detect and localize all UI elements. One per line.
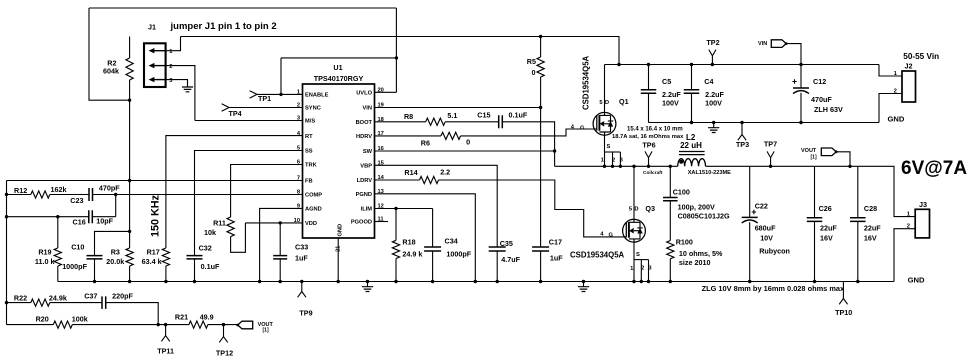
wire: Q3 source pin bar [634,259,649,261]
wire: Q1 source pin bar [605,151,621,153]
junction: R19 tap on C16 branch [56,215,59,218]
resistor R2 [126,58,133,80]
wire: ENABLE pull-up vertical [280,58,282,95]
wire: M/S pin 3 line [195,120,303,122]
svg-text:ILIM: ILIM [361,207,373,213]
wire: Q3 drain lead [633,166,635,219]
svg-text:VBP: VBP [360,164,372,170]
svg-text:6V@7A: 6V@7A [901,158,967,179]
junction: C16 riser on COMP rail [114,193,117,196]
wire: output rail [706,166,916,216]
junction on ground bus at x=749.7 [748,280,751,283]
wire: VBP pin 15 net to C35 [375,165,498,247]
wire: J3 pin 2 to ground bus [894,229,915,282]
svg-text:100V: 100V [662,98,679,107]
wire: ENABLE pin 1 line [257,93,303,95]
wire: C100 top lead [669,166,671,197]
wire: C26 bottom lead [814,221,816,281]
junction: R2/R3 on FB rail [128,179,131,182]
svg-text:size 2010: size 2010 [679,258,711,267]
wire: RT pin 4 net to R17 [166,136,303,248]
junction: C4 on VIN rail [690,63,693,66]
wire: C37 to R20 line [106,303,159,325]
wire: R14 to Q3 gate [439,180,627,237]
wire: C10 top lead and link to R3 vertical [95,231,130,255]
wire: Q3 source pin 2 stub [640,260,642,282]
svg-text:R20: R20 [36,314,49,323]
inductor L2 [679,152,705,155]
svg-text:100V: 100V [705,98,722,107]
resistor R8 [426,118,446,125]
wire: R100 bottom lead [669,259,671,282]
svg-text:10 ohms, 5%: 10 ohms, 5% [679,249,723,258]
svg-text:R100: R100 [676,238,693,247]
wire: long line J1 pin1 to input rail [181,37,620,65]
svg-text:ZLG 10V 8mm by 16mm 0.028 ohms: ZLG 10V 8mm by 16mm 0.028 ohms max [702,284,845,293]
svg-text:TP12: TP12 [216,349,233,358]
connector J1 body [144,43,166,87]
connector J1 pin 3 arrow [154,79,166,81]
svg-text:C12: C12 [813,77,826,86]
resistor R14 [420,176,439,183]
svg-text:BOOT: BOOT [356,120,373,126]
connector J1 pin 2 arrow [154,65,166,67]
svg-text:470uF: 470uF [811,95,832,104]
svg-text:D: D [605,100,609,106]
junction on ground bus at x=396 [394,280,397,283]
svg-text:J3: J3 [919,200,927,209]
svg-text:TP2: TP2 [706,38,719,47]
wire: jumper box top edge [89,7,396,9]
wire: C28 top lead [857,166,859,218]
wire: C12 top lead [800,65,802,89]
junction: C10 link on R3 vertical [128,230,131,233]
svg-text:0.1uF: 0.1uF [201,262,220,271]
svg-text:HDRV: HDRV [356,134,372,140]
wire: R19 bottom lead [57,266,59,282]
op-amp U1 controller body TPS40170RGY [303,84,375,238]
junction: Q1 source pin3 on SW rail [619,165,622,168]
wire: PGOOD pin 11 stub [375,221,389,223]
junction: SW pin line on C15 drop [553,149,556,152]
wire: C22 top lead [749,166,751,217]
svg-text:XAL1510-223ME: XAL1510-223ME [688,170,731,176]
junction on ground bus at x=641.3 [640,280,643,283]
svg-text:Rubycon: Rubycon [759,246,790,255]
junction: C100 snubber on SW rail [669,165,672,168]
svg-text:SYNC: SYNC [305,106,321,112]
junction: ENABLE vertical on ENABLE line [279,93,282,96]
svg-text:TP11: TP11 [157,347,174,356]
wire: R12 to C23 [50,194,89,196]
wire: C5 top lead [648,65,650,90]
svg-text:PGND: PGND [356,192,372,198]
svg-text:22 uH: 22 uH [680,141,702,150]
capacitor C28 [850,218,866,222]
svg-text:C16: C16 [73,218,86,227]
svg-text:C28: C28 [864,204,877,213]
svg-text:Q1: Q1 [619,97,629,106]
junction: ENABLE pull-up at UVLO vertical [395,56,398,59]
svg-text:U1: U1 [333,63,342,72]
capacitor C22 [742,216,758,218]
svg-text:Coilcraft: Coilcraft [643,170,663,176]
wire: Q1 source lead [604,135,606,166]
svg-text:C26: C26 [819,204,832,213]
svg-text:15.4 x 16.4 x 10 mm: 15.4 x 16.4 x 10 mm [627,127,683,133]
wire: PGND pin 13 net [375,194,476,282]
testpoint TP2 symbol [709,50,716,65]
wire: jumper box right edge (UVLO net) [395,8,397,92]
svg-text:R11: R11 [213,219,226,228]
junction: TP12 on VOUT line [222,323,225,326]
svg-text:TP9: TP9 [299,309,312,318]
connector J3 body [915,209,929,238]
junction on ground bus at x=194.5 [193,280,196,283]
svg-text:R14: R14 [404,168,417,177]
svg-text:18.7A sat, 16 mOhms max: 18.7A sat, 16 mOhms max [612,134,684,140]
junction: ground symbol on input bus [712,121,715,124]
wire: Q3 source pin 3 stub [648,260,650,282]
svg-text:R19: R19 [38,247,51,256]
svg-text:M/S: M/S [305,119,315,125]
svg-text:100p, 200V: 100p, 200V [678,202,715,211]
capacitor C100 [663,198,678,201]
capacitor C32 [187,256,203,259]
svg-text:C23: C23 [70,196,83,205]
svg-text:604k: 604k [103,67,119,76]
wire: LDRV pin 14 line [375,179,420,181]
wire: Q1 source pin 2 stub [612,152,614,166]
svg-text:G: G [580,125,585,131]
resistor R12 [31,191,50,198]
junction on ground bus at x=129.6 [128,280,131,283]
testpoint TP1 symbol [250,91,257,98]
wire: R21 to VOUT flag [208,324,237,326]
wire: R5 bottom lead [540,77,542,108]
svg-text:0.1uF: 0.1uF [509,111,528,120]
junction: TP2 on VIN rail [711,63,714,66]
testpoint TP12 symbol [219,325,227,343]
capacitor C34 [424,247,441,251]
svg-text:[1]: [1] [263,328,269,334]
svg-text:10pF: 10pF [96,217,113,226]
svg-text:[1]: [1] [811,155,817,161]
junction: VIN flag / C12 on rail [799,63,802,66]
junction: Q1 source pin2 on SW rail [611,165,614,168]
testpoint TP4 symbol [222,104,229,111]
resistor R21 [189,321,208,328]
svg-text:R22: R22 [14,293,27,302]
junction: left riser on COMP rail [5,193,8,196]
svg-text:22uF: 22uF [820,224,837,233]
svg-text:1uF: 1uF [295,254,308,263]
capacitor C26 [807,218,823,222]
svg-text:ZLH 63V: ZLH 63V [814,105,843,114]
svg-text:C17: C17 [549,238,562,247]
ground symbol on bus (left) [367,282,369,287]
svg-text:TP1: TP1 [258,94,271,103]
junction on ground bus at x=432.6 [431,280,434,283]
wire: R18 bottom lead [395,259,397,282]
wire: R18 top lead [395,209,397,241]
svg-text:VIN: VIN [758,41,767,47]
svg-text:63.4 k: 63.4 k [142,257,162,266]
wire: R20 branch left [7,324,54,326]
wire: C32 bottom lead [194,259,196,282]
svg-text:C10: C10 [71,243,84,252]
svg-text:S: S [636,252,640,258]
junction: TP3 on input bus [740,121,743,124]
wire: jumper box left edge down to R2 net [89,8,130,100]
wire: C22 bottom lead [749,222,751,281]
junction: C33 tap on VDD line [279,221,282,224]
svg-text:SS: SS [305,149,313,155]
junction: left riser at R22 branch [5,301,8,304]
testpoint TP6 symbol [645,151,652,166]
svg-text:CSD19534Q5A: CSD19534Q5A [570,251,625,260]
svg-text:2.2: 2.2 [440,168,450,177]
resistor R17 [162,248,169,266]
svg-text:C22: C22 [755,202,768,211]
capacitor C12 [793,87,809,89]
wire: SYNC pin 2 line [229,107,303,109]
net flag VOUT (top) [821,148,836,156]
net flag VIN [771,40,786,48]
wire: analog/power ground bus [58,281,894,283]
junction on ground bus at x=94.5 [93,280,96,283]
svg-text:TPS40170RGY: TPS40170RGY [314,74,364,83]
resistor R22 [31,299,50,306]
svg-text:C37: C37 [84,292,97,301]
svg-text:TP6: TP6 [642,140,655,149]
svg-text:TRK: TRK [305,163,318,169]
wire: R3 top lead from FB rail [129,181,131,249]
connector J2 body [902,71,916,102]
transistor Q1 [593,112,616,135]
junction: R18 tap on ILIM line [394,207,397,210]
svg-text:1000pF: 1000pF [62,262,87,271]
wire: input VIN rail [605,64,880,66]
svg-text:16V: 16V [864,233,877,242]
svg-text:2: 2 [612,158,615,164]
svg-text:R12: R12 [14,186,27,195]
wire: R6 to Q1 gate [461,129,597,136]
wire: U1 pin 21 GND to bus [337,238,339,282]
svg-text:11.0 k: 11.0 k [35,257,55,266]
wire: C10 bottom lead [94,259,96,282]
wire: R11 bottom to VDD net [231,223,246,252]
wire: R2 top lead [129,37,131,59]
capacitor C37 [102,296,106,309]
junction on ground bus at x=634 [632,280,635,283]
svg-text:20: 20 [378,88,384,94]
capacitor C35 [489,247,506,251]
capacitor C23 [89,188,93,201]
junction on ground bus at x=648.5 [647,280,650,283]
wire: UVLO pin 20 to box right edge [375,91,397,93]
junction on ground bus at x=497.2 [496,280,499,283]
transistor Q3 [623,219,646,242]
svg-text:C32: C32 [199,244,212,253]
svg-text:10k: 10k [204,228,216,237]
svg-text:R8: R8 [404,112,413,121]
svg-text:50-55 Vin: 50-55 Vin [903,52,939,61]
wire: Q1 source pin 3 stub [619,152,621,166]
ground symbol on input bus [713,123,715,128]
wire: R22 branch left [7,302,31,304]
junction: C37 drop on R20 line [157,323,160,326]
svg-text:VOUT: VOUT [801,148,817,154]
wire: TRK pin 6 net to R11 [231,165,303,218]
junction on ground bus at x=338.2 [337,280,340,283]
wire: C17 bottom lead [540,251,542,282]
svg-text:PGOOD: PGOOD [351,220,372,226]
wire: C4 bottom lead [691,93,693,122]
svg-text:R18: R18 [402,237,415,246]
wire: C23 to COMP pin [93,194,303,196]
junction: TP11 on VOUT sense line [164,323,167,326]
wire: VIN rail to J2 pin 1 [879,65,902,77]
svg-text:TP3: TP3 [736,140,749,149]
wire: Q1 drain lead [604,65,606,113]
svg-text:C33: C33 [295,243,308,252]
svg-text:R17: R17 [147,248,160,257]
capacitor C16 [89,210,93,223]
svg-text:2: 2 [894,88,897,94]
wire: J1 pin3 to ground [166,80,188,87]
wire: C26 top lead [814,166,816,218]
wire: SW rail left portion [555,165,678,167]
wire: R20 to R21 [72,324,189,326]
svg-text:10V: 10V [760,233,773,242]
wire: VIN flag to rail [786,44,801,65]
junction: R5 on long line [539,35,542,38]
svg-text:TP4: TP4 [229,109,242,118]
wire: BOOT pin 18 line [375,121,426,123]
svg-text:GND: GND [908,276,925,285]
wire: R2 bottom lead down to FB node [129,80,131,181]
junction: VOUT flag on output rail [848,165,851,168]
capacitor C33 [273,256,287,259]
wire: HDRV pin 17 line [375,135,442,137]
junction: C12 on input ground bus [799,121,802,124]
svg-text:VDD: VDD [305,221,317,227]
svg-text:680uF: 680uF [755,224,776,233]
junction: Q1 source pin1 on SW rail [603,165,606,168]
svg-text:FB: FB [305,179,313,185]
svg-text:1000pF: 1000pF [446,250,471,259]
svg-text:C35: C35 [500,239,513,248]
junction: left riser at C16 branch [5,215,8,218]
svg-text:162k: 162k [51,185,67,194]
svg-text:ENABLE: ENABLE [305,93,329,99]
wire: C28 bottom lead [857,221,859,281]
wire: FB pin 7 rail [7,180,303,182]
wire: far-left vertical riser [6,181,8,325]
wire: SW pin 16 line [375,150,555,152]
ground symbol on bus (right) [583,282,585,287]
wire: ILIM pin 12 line [375,208,433,210]
svg-text:UVLO: UVLO [356,91,372,97]
junction: C5 on VIN rail [647,63,650,66]
junction: R2 vertical / box-left wire [128,99,131,102]
svg-text:GND: GND [338,224,344,237]
svg-text:R5: R5 [527,57,536,66]
testpoint TP9 symbol [298,282,306,298]
svg-text:2: 2 [907,224,910,230]
svg-text:C15: C15 [477,111,490,120]
capacitor C17 [532,247,549,251]
svg-text:220pF: 220pF [112,292,133,301]
junction on ground bus at x=670.3 [669,280,672,283]
resistor R19 [54,248,61,266]
resistor R18 [392,240,399,258]
svg-text:49.9: 49.9 [200,313,214,322]
junction on ground bus at x=540.6 [539,280,542,283]
svg-text:C100: C100 [673,188,690,197]
wire: R22 to C37 [50,302,102,304]
svg-text:J2: J2 [905,62,913,71]
wire: C33 bottom lead [279,259,281,282]
svg-text:AGND: AGND [305,207,322,213]
wire: J1 pin1 to long VIN-sense line [166,37,181,51]
junction on ground bus at x=857.8 [856,280,859,283]
wire: ENABLE pull-up horizontal [281,57,396,59]
wire: C33 top lead [279,223,281,256]
wire: C12 bottom lead [800,93,802,123]
wire: R5 top lead from long line [540,37,542,58]
svg-text:100k: 100k [72,314,88,323]
connector J1 pin 1 arrow [154,50,166,52]
svg-text:2: 2 [169,64,172,70]
junction on ground bus at x=301.8 [300,280,303,283]
wire: R8 to C15 [445,121,499,123]
svg-text:4.7uF: 4.7uF [501,255,520,264]
resistor R20 [53,321,72,328]
svg-text:RT: RT [305,134,313,140]
svg-text:S: S [607,144,611,150]
svg-text:C5: C5 [662,77,671,86]
svg-text:TP7: TP7 [764,140,777,149]
testpoint TP10 symbol [839,282,847,305]
svg-text:Q3: Q3 [645,204,655,213]
svg-text:VIN: VIN [363,106,372,112]
svg-text:470pF: 470pF [99,184,120,193]
wire: J2 pin 2 to input ground bus [879,94,902,123]
svg-text:R6: R6 [421,138,430,147]
junction on ground bus at x=280.2 [279,280,282,283]
svg-text:jumper J1 pin 1 to pin 2: jumper J1 pin 1 to pin 2 [170,21,277,32]
wire: VOUT flag to output rail [836,152,850,167]
svg-text:C34: C34 [445,236,458,245]
testpoint TP7 symbol [767,151,774,166]
junction: R5 / C17 feed on VIN line [539,106,542,109]
resistor R100 [667,241,674,259]
capacitor C4 [684,90,700,93]
wire: C34 bottom lead [432,251,434,282]
wire: VDD pin 10 line [245,222,302,224]
svg-text:0: 0 [532,68,536,77]
resistor R5 [537,57,544,77]
svg-text:J1: J1 [148,22,156,31]
wire: C16 branch left [7,216,89,218]
svg-text:150 KHz: 150 KHz [150,194,162,237]
svg-text:GND: GND [888,114,905,123]
wire: VIN feed down to C17 [540,108,542,248]
capacitor C5 [641,90,657,93]
junction on ground bus at x=583.5 [582,280,585,283]
